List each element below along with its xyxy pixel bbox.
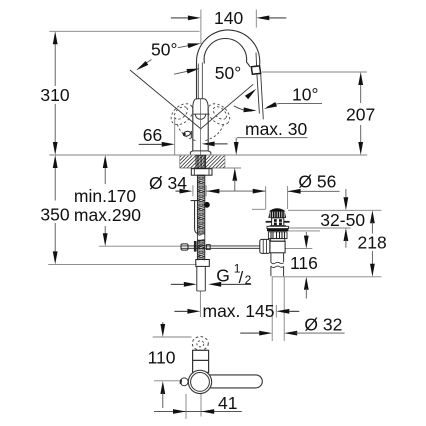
svg-text:32-50: 32-50 xyxy=(320,210,365,230)
svg-text:max.290: max.290 xyxy=(74,205,141,225)
svg-text:207: 207 xyxy=(346,104,375,124)
svg-text:/: / xyxy=(239,269,244,287)
svg-text:50°: 50° xyxy=(215,63,241,83)
svg-text:10°: 10° xyxy=(292,85,318,105)
svg-text:50°: 50° xyxy=(151,39,177,59)
svg-text:310: 310 xyxy=(40,85,69,105)
svg-text:G: G xyxy=(216,266,230,286)
svg-text:max. 30: max. 30 xyxy=(245,119,308,139)
svg-text:max. 145: max. 145 xyxy=(203,301,275,321)
svg-text:2: 2 xyxy=(245,273,252,287)
svg-text:116: 116 xyxy=(290,253,318,273)
svg-text:66: 66 xyxy=(143,125,162,145)
svg-text:140: 140 xyxy=(214,8,243,28)
svg-text:350: 350 xyxy=(40,205,69,225)
svg-text:Ø 32: Ø 32 xyxy=(304,315,342,335)
svg-text:Ø 56: Ø 56 xyxy=(298,172,336,192)
svg-text:110: 110 xyxy=(148,347,176,367)
svg-text:218: 218 xyxy=(358,232,387,252)
svg-text:min.170: min.170 xyxy=(74,186,137,206)
svg-text:41: 41 xyxy=(218,393,237,413)
